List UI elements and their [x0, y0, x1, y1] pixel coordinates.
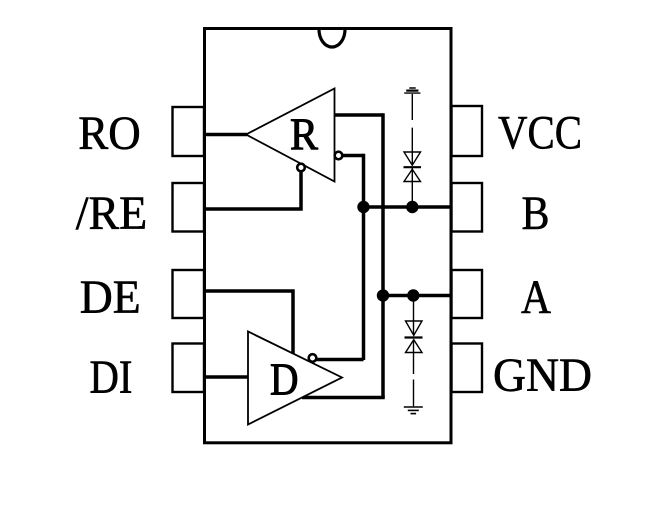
wire receiver inverting input from node B	[338, 154, 364, 158]
wire bottom diode to ground (with break)	[413, 340, 415, 406]
protection diode pair D1 (VCC/B clamp)	[404, 152, 422, 182]
svg-text:DE: DE	[80, 271, 141, 324]
pin box RO (pin 1)	[173, 107, 205, 156]
wire DI to driver input	[203, 375, 250, 379]
svg-text:R: R	[290, 110, 318, 160]
svg-text:/RE: /RE	[76, 187, 148, 240]
pin box /RE (pin 2)	[173, 183, 205, 232]
wire top diode to node B	[411, 168, 413, 207]
VCC rail symbol	[404, 88, 420, 93]
svg-text:A: A	[521, 271, 551, 324]
wire driver inverting output to net B	[312, 358, 364, 362]
junction node A right	[407, 289, 419, 301]
wire node B to pin B	[364, 205, 453, 209]
pin box DI (pin 4)	[173, 344, 205, 393]
receiver R triangle	[246, 89, 335, 182]
svg-text:D: D	[270, 355, 299, 405]
svg-text:B: B	[522, 187, 550, 240]
wire net B vertical	[362, 154, 366, 360]
wire VCC rail to top diode (with break)	[411, 94, 413, 165]
wire net A vertical	[381, 113, 385, 397]
svg-text:GND: GND	[493, 349, 592, 402]
pin box DE (pin 3)	[173, 270, 205, 318]
junction node B right	[406, 201, 418, 213]
bubble receiver enable	[297, 164, 305, 172]
wire DE to driver enable	[203, 291, 293, 356]
IC body U1	[205, 29, 452, 443]
svg-text:VCC: VCC	[498, 107, 582, 160]
driver D triangle	[248, 332, 342, 425]
protection diode pair D2 (A/GND clamp)	[405, 321, 423, 353]
pin box B (pin 7)	[452, 183, 483, 232]
pin box A (pin 6)	[452, 270, 483, 318]
pin box GND (pin 5)	[452, 344, 483, 393]
junction node A left	[377, 289, 389, 301]
wire RO to receiver output	[203, 133, 247, 137]
notch	[319, 30, 345, 48]
svg-text:DI: DI	[90, 351, 133, 404]
wire receiver noninverting input from node A	[335, 113, 384, 117]
wire node A to bottom diode	[413, 296, 415, 336]
bubble receiver inverting input	[335, 152, 343, 160]
pin box VCC (pin 8)	[452, 106, 483, 156]
wire driver output to net A	[302, 396, 385, 400]
wire /RE to receiver enable bubble	[203, 170, 301, 209]
svg-text:RO: RO	[78, 107, 141, 160]
ground symbol	[404, 407, 423, 414]
wire node A to pin A	[383, 294, 452, 298]
bubble driver inverting output	[309, 354, 317, 362]
junction node B left	[357, 201, 369, 213]
